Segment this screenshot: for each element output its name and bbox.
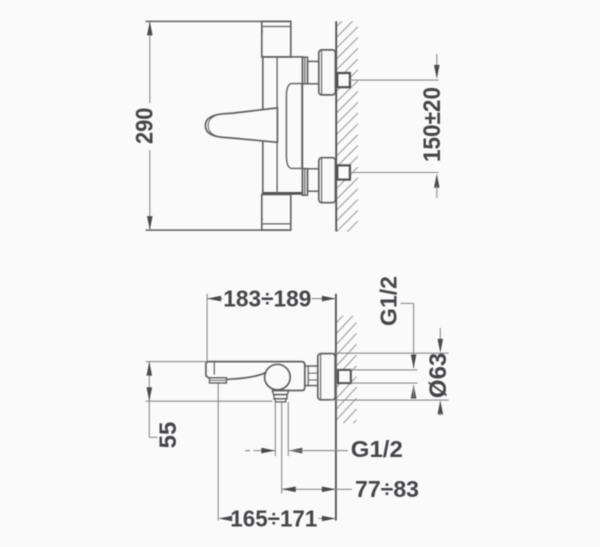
arrow left 77-83 xyxy=(282,487,296,493)
hex adapter ring line xyxy=(307,366,309,386)
svg-text:G1/2: G1/2 xyxy=(351,436,403,462)
hex facet line 1 xyxy=(308,372,318,374)
leader 55 tick xyxy=(149,436,157,438)
lower union base xyxy=(302,169,307,196)
G1/2 leader vertical xyxy=(413,303,415,368)
G1/2 left arrow tail xyxy=(254,450,276,452)
upper union base inner line xyxy=(304,57,306,84)
svg-text:Ø63: Ø63 xyxy=(425,353,452,398)
shower outlet band xyxy=(274,395,287,399)
wall hatching (view 1) xyxy=(336,0,358,254)
top extension line / handle top edge xyxy=(146,20,291,22)
wall face line (view 1) xyxy=(335,21,337,231)
body top edge (view 2) xyxy=(209,361,302,363)
lower union neck xyxy=(308,169,319,191)
handle (bottom, view 1) xyxy=(262,195,291,231)
handle edge tick (bottom) xyxy=(261,214,263,220)
dim line 165-171 right segment xyxy=(319,518,336,520)
spout tip inner line xyxy=(213,362,215,375)
arrow left 165-171 xyxy=(218,516,232,522)
extension line spout tip xyxy=(206,294,208,361)
dim 63 upper tail xyxy=(439,328,441,341)
aerator xyxy=(210,378,227,383)
extension line outlet left xyxy=(274,402,276,456)
G1/2 lower tail xyxy=(413,385,415,398)
svg-text:G1/2: G1/2 xyxy=(376,276,402,326)
body bottom thick edge xyxy=(263,192,302,194)
shower outlet cone xyxy=(272,391,288,395)
arrow up 55 xyxy=(147,362,153,376)
control knob circle xyxy=(265,364,291,390)
bottom extension line / handle bottom edge xyxy=(146,229,291,231)
dimension line 290 (upper segment) xyxy=(149,21,151,103)
lower union base inner line xyxy=(304,169,306,196)
handle cap line (top) xyxy=(262,26,291,28)
upper union neck xyxy=(308,61,319,83)
svg-text:55: 55 xyxy=(155,422,182,449)
cartridge drum contour xyxy=(286,84,302,169)
extension line aerator bottom (55) xyxy=(146,400,273,402)
shower outlet thread xyxy=(275,399,285,402)
body inner line xyxy=(276,57,278,194)
svg-text:150±20: 150±20 xyxy=(419,87,446,162)
aerator inner line xyxy=(211,379,226,381)
wall hatching (view 2) xyxy=(336,290,356,441)
dim line 150 upper tail xyxy=(436,54,438,67)
dim line 183-189 left segment xyxy=(207,298,222,300)
arrow left G1/2 bottom xyxy=(288,448,302,454)
arrow up G1/2 top xyxy=(411,385,417,399)
handle edge tick (top) xyxy=(261,30,263,35)
upper wall flange xyxy=(319,50,336,95)
arrow right 183-189 xyxy=(322,296,336,302)
dim line 150 lower tail xyxy=(436,186,438,198)
arrow up 150 xyxy=(434,174,440,188)
arrow down G1/2 top xyxy=(411,355,417,369)
handle cap line (bottom) xyxy=(262,223,291,225)
extension line spout top (55) xyxy=(146,361,206,363)
leader 55 vertical xyxy=(148,401,150,437)
arrow right G1/2 bottom xyxy=(261,448,275,454)
mixer body (view 1) xyxy=(263,57,303,194)
extension line nipple top xyxy=(351,369,418,371)
wall flange (view 2) xyxy=(318,354,335,400)
flange lip line (view 2) xyxy=(320,354,322,399)
upper connection axis line xyxy=(350,79,439,81)
arrow up 63 xyxy=(438,400,444,414)
dim line 165-171 left xyxy=(229,518,232,520)
dim line 77-83 xyxy=(282,488,336,490)
upper union base xyxy=(302,57,307,84)
arrow down 55 xyxy=(147,387,153,401)
dim line 55 xyxy=(148,362,150,402)
extension line outlet axis xyxy=(281,402,283,494)
arrow right 165-171 xyxy=(322,516,336,522)
svg-text:165÷171: 165÷171 xyxy=(230,505,317,531)
G1/2 leader horizontal xyxy=(401,302,414,304)
G1/2 dash xyxy=(246,450,251,452)
upper square nut xyxy=(337,73,350,87)
cartridge drum right edge xyxy=(301,84,303,169)
spout tip and underside xyxy=(206,362,267,380)
dim 63 lower tail xyxy=(439,413,441,416)
svg-text:290: 290 xyxy=(131,108,158,145)
lower connection axis line xyxy=(350,172,439,174)
arrow down 150 xyxy=(434,65,440,79)
hex adapter (view 2) xyxy=(305,366,318,386)
arrow down 63 xyxy=(438,339,444,353)
arrow up 290 xyxy=(147,21,153,35)
extension line nipple bottom xyxy=(351,382,418,384)
svg-text:77÷83: 77÷83 xyxy=(355,476,419,502)
arrow down 290 xyxy=(147,216,153,230)
wall face line (view 2) xyxy=(335,294,337,521)
hex facet line 2 xyxy=(308,379,318,381)
pipe nipple behind wall xyxy=(338,370,351,383)
extension line outlet right xyxy=(287,402,289,456)
extension line flange bottom xyxy=(331,399,449,401)
extension line aerator axis (165) xyxy=(217,383,219,520)
dimension line 290 (lower segment) xyxy=(149,150,151,230)
lower square nut xyxy=(337,165,350,179)
spout tip inner contour xyxy=(208,114,219,137)
G1/2 bottom leader xyxy=(288,450,348,452)
dim line 183-189 right segment xyxy=(312,298,336,300)
upper flange lip line xyxy=(321,51,323,95)
dim 77-83 leader xyxy=(336,488,352,490)
spout (plan view) xyxy=(205,108,277,142)
svg-text:183÷189: 183÷189 xyxy=(223,285,311,311)
body right edge and bottom edge xyxy=(272,362,305,391)
handle (top, view 1) xyxy=(262,21,291,57)
arrow right 77-83 xyxy=(322,487,336,493)
extension line flange top xyxy=(331,352,449,354)
lower flange lip line xyxy=(321,158,323,202)
arrow left 183-189 xyxy=(207,296,221,302)
lower wall flange xyxy=(319,158,336,203)
